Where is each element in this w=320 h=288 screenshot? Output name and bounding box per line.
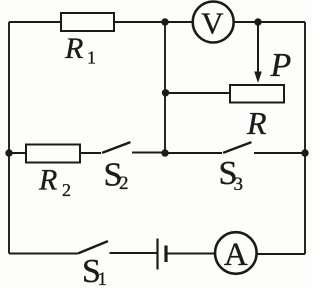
node C junction dot (162, 89, 169, 96)
wire S1 contact to battery (110, 252, 158, 254)
resistor R2 (26, 145, 80, 163)
switch S3 blade (224, 143, 251, 153)
wire ammeter to bottom-right corner (257, 253, 306, 255)
svg-text:2: 2 (119, 173, 129, 194)
switch S2 blade (103, 143, 130, 153)
wire R2 to switch S2 (80, 152, 101, 154)
label R1 (64, 32, 96, 68)
wire node E to switch S3 (165, 152, 222, 154)
node B junction dot (254, 18, 261, 25)
wire voltmeter to node B (234, 21, 258, 23)
label S1 (82, 253, 107, 288)
wire bottom-left segment (9, 253, 78, 255)
label S3 (219, 155, 244, 195)
svg-text:A: A (224, 237, 248, 273)
wire top-left segment (9, 21, 61, 23)
svg-text:2: 2 (62, 180, 71, 200)
svg-text:1: 1 (87, 48, 96, 68)
wire node C to rheostat left terminal (165, 92, 230, 94)
ammeter A (215, 232, 257, 274)
battery cell (158, 239, 167, 270)
node A junction dot (161, 18, 168, 25)
wire right vertical (304, 22, 306, 254)
voltmeter V (193, 2, 234, 43)
node D junction dot (5, 149, 12, 156)
svg-text:1: 1 (98, 269, 108, 288)
rheostat slider arrow P (254, 24, 262, 83)
label R2 (38, 164, 71, 201)
wire node D to R2 (9, 152, 26, 154)
wire node A to voltmeter (165, 21, 193, 23)
rheostat R box (230, 85, 284, 103)
wire battery to ammeter (168, 253, 216, 255)
wire S2 contact to node E (132, 152, 165, 154)
resistor R1 (61, 13, 114, 31)
switch S1 blade (79, 242, 107, 254)
svg-text:R: R (246, 105, 267, 141)
wire vertical branch node A down to node E (164, 22, 166, 153)
svg-text:V: V (201, 6, 224, 41)
wire node B to top-right corner (258, 21, 305, 23)
wire R1 to node A (114, 21, 165, 23)
svg-text:3: 3 (234, 174, 244, 195)
node F junction dot (301, 149, 308, 156)
wire left vertical (8, 22, 10, 254)
svg-text:P: P (270, 47, 292, 84)
wire S3 contact to node F (254, 152, 305, 154)
label S2 (104, 157, 129, 195)
svg-text:R: R (64, 32, 83, 65)
svg-text:R: R (38, 164, 57, 197)
node E junction dot (161, 149, 168, 156)
